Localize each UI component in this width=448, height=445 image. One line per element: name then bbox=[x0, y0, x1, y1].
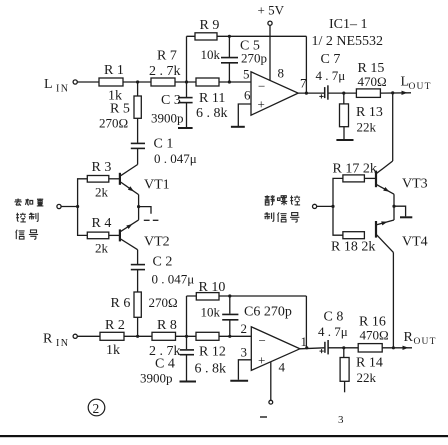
label R17 bbox=[333, 162, 377, 177]
svg-text:R: R bbox=[404, 330, 414, 345]
node J4 (R2/R8/R6) bbox=[136, 335, 139, 338]
node feedback2/C6 top bbox=[228, 294, 231, 297]
wire terminal to rail bbox=[61, 206, 78, 208]
wire R14 top bbox=[343, 348, 345, 358]
svg-text:R 8: R 8 bbox=[157, 318, 177, 333]
label R11 bbox=[196, 91, 228, 121]
ground (C4) bbox=[180, 381, 197, 383]
label C1 bbox=[154, 137, 197, 167]
wire R1 to R7 bbox=[123, 81, 151, 83]
label R18 bbox=[331, 240, 375, 255]
svg-text:VT4: VT4 bbox=[402, 235, 428, 250]
label circled 2 bbox=[88, 399, 105, 416]
label R4 bbox=[92, 216, 112, 256]
wire C7 to R15 bbox=[328, 92, 357, 94]
resistor R9 bbox=[195, 33, 217, 40]
svg-text:270p: 270p bbox=[241, 51, 267, 66]
svg-text:C 2: C 2 bbox=[153, 255, 173, 270]
node U2 output/feedback bbox=[305, 346, 308, 349]
svg-text:2k: 2k bbox=[95, 185, 109, 200]
svg-text:0 . 047μ: 0 . 047μ bbox=[154, 151, 197, 166]
svg-text:6 . 8k: 6 . 8k bbox=[196, 106, 228, 121]
label L_IN bbox=[44, 77, 69, 95]
svg-text:8: 8 bbox=[278, 66, 285, 81]
svg-text:OUT: OUT bbox=[414, 337, 437, 347]
wire C2 to R6 bbox=[137, 270, 139, 292]
wire control rail to R3 bbox=[78, 179, 88, 236]
svg-text:270Ω: 270Ω bbox=[149, 295, 178, 310]
svg-text:5: 5 bbox=[243, 67, 250, 82]
node J5 (R8/R12/C4/R10) bbox=[185, 335, 188, 338]
svg-text:R 12: R 12 bbox=[199, 345, 226, 360]
node C8/R14 bbox=[342, 346, 345, 349]
svg-text:+: + bbox=[258, 353, 265, 368]
bottom border line bbox=[0, 435, 448, 437]
wire C3 to ground bbox=[186, 103, 188, 128]
label 静噪控制信号 bbox=[264, 195, 300, 222]
wire VT2 emitter up to junction bbox=[138, 207, 140, 220]
wire +5V to op-amp pin 8 bbox=[269, 25, 271, 80]
resistor R17 bbox=[343, 175, 365, 182]
svg-text:2k: 2k bbox=[95, 241, 109, 256]
wire J2 up to feedback rail bbox=[186, 36, 188, 82]
capacitor C4 bbox=[180, 350, 194, 355]
node U1 output/feedback bbox=[305, 92, 308, 95]
wire R5 to C1 bbox=[137, 118, 139, 143]
svg-text:270Ω: 270Ω bbox=[99, 116, 128, 131]
wire VT4 emitter up to junction bbox=[393, 206, 395, 220]
svg-text:2 . 7k: 2 . 7k bbox=[149, 64, 181, 79]
wire R6 to bottom rail bbox=[137, 317, 139, 336]
wire R11 to op-amp inverting input bbox=[219, 81, 251, 83]
wire U2 output bbox=[300, 348, 324, 349]
wire VT3 collector from L_OUT node bbox=[392, 93, 394, 161]
svg-text:C 7: C 7 bbox=[321, 52, 341, 67]
resistor R16 bbox=[358, 344, 382, 352]
svg-text:C 4: C 4 bbox=[155, 357, 175, 372]
svg-text:R 13: R 13 bbox=[356, 105, 383, 120]
capacitor C7 (electrolytic) bbox=[319, 85, 328, 99]
terminal negative supply bbox=[269, 400, 273, 404]
resistor R10 bbox=[196, 293, 219, 300]
svg-text:470Ω: 470Ω bbox=[360, 328, 389, 343]
node R15/VT3 collector bbox=[391, 91, 394, 94]
wire R17 to VT3 base bbox=[364, 177, 375, 179]
resistor R14 bbox=[340, 358, 349, 382]
wire feedback rail top bbox=[187, 35, 307, 37]
node mute rail junction bbox=[331, 205, 334, 208]
svg-text:2: 2 bbox=[93, 401, 100, 416]
node C7/R13 bbox=[342, 92, 345, 95]
label R2 bbox=[105, 318, 125, 358]
ground (R13) bbox=[336, 139, 353, 141]
label R5 bbox=[99, 102, 130, 131]
terminal R_IN bbox=[73, 334, 77, 338]
svg-text:R 17 2k: R 17 2k bbox=[333, 162, 377, 177]
label VT2 bbox=[144, 235, 170, 250]
svg-text:L: L bbox=[44, 77, 53, 92]
svg-text:+: + bbox=[258, 97, 265, 112]
svg-text:R 11: R 11 bbox=[199, 91, 225, 106]
wire R13 to ground bbox=[343, 127, 345, 139]
svg-text:OUT: OUT bbox=[409, 82, 432, 92]
label R_IN bbox=[43, 332, 69, 350]
wire feedback rail down to output bbox=[305, 36, 307, 93]
node VT3/VT4 emitter junction bbox=[392, 205, 395, 208]
wire C1 to VT1 collector bbox=[137, 148, 139, 164]
label R6 bbox=[111, 295, 178, 311]
label L_OUT bbox=[401, 75, 432, 93]
wire R7 to R11 bbox=[175, 81, 196, 83]
svg-text:22k: 22k bbox=[357, 120, 377, 135]
wire J1 down to R5 bbox=[137, 82, 139, 96]
resistor R1 bbox=[99, 78, 123, 86]
op-amp U1 (1/2 NE5532) bbox=[251, 72, 298, 115]
node J2 (R7/R11/C3/R9) bbox=[185, 80, 188, 83]
resistor R15 bbox=[356, 89, 380, 98]
svg-text:IC1– 1: IC1– 1 bbox=[329, 17, 368, 32]
terminal mute control bbox=[313, 204, 317, 208]
label R3 bbox=[92, 160, 112, 200]
label R10 bbox=[199, 280, 226, 320]
svg-text:3: 3 bbox=[241, 345, 248, 360]
svg-text:4 . 7μ: 4 . 7μ bbox=[316, 68, 346, 83]
label VT4 bbox=[402, 235, 428, 250]
capacitor C8 (electrolytic) bbox=[320, 340, 329, 354]
svg-text:R 5: R 5 bbox=[110, 102, 130, 117]
capacitor C6 bbox=[222, 296, 238, 336]
label R7 bbox=[149, 49, 181, 80]
label U2 pins and signs bbox=[241, 321, 308, 375]
resistor R3 bbox=[87, 176, 109, 183]
wire R16 to R_OUT bbox=[382, 347, 412, 349]
wire VT4 collector down to R_OUT node bbox=[392, 252, 394, 347]
wire R4 to VT2 base bbox=[109, 234, 119, 236]
resistor R12 bbox=[196, 332, 219, 340]
ground (U1 plus input) bbox=[231, 126, 245, 128]
transistor VT4 bbox=[376, 220, 394, 252]
label R8 bbox=[149, 318, 181, 359]
wire C4 to ground bbox=[186, 355, 188, 381]
node R16/VT4 collector bbox=[392, 346, 395, 349]
label R9 bbox=[200, 18, 221, 62]
node control rail junction bbox=[76, 205, 79, 208]
wire R3 to VT1 base bbox=[109, 178, 119, 180]
resistor R2 bbox=[100, 332, 124, 340]
svg-text:7: 7 bbox=[300, 76, 307, 91]
node VT1/VT2 emitter junction bbox=[137, 205, 140, 208]
label C5 bbox=[240, 39, 267, 66]
wire J5 down to C4 bbox=[186, 336, 188, 349]
label minus supply bbox=[260, 416, 267, 418]
node J1 (R1/R7/R5) bbox=[136, 80, 139, 83]
wire feedback rail 2 down to output bbox=[305, 296, 307, 348]
wire mute rail to R17/R18 bbox=[333, 178, 343, 235]
wire dashed continuation bbox=[144, 219, 159, 221]
svg-text:3900p: 3900p bbox=[151, 111, 184, 126]
arrow R_OUT bbox=[403, 346, 409, 350]
arrow L_OUT bbox=[402, 91, 408, 95]
wire feedback rail 2 bbox=[187, 295, 307, 297]
label R_OUT bbox=[404, 330, 437, 347]
node feedback/C5 top bbox=[228, 35, 231, 38]
svg-text:VT2: VT2 bbox=[144, 235, 170, 250]
resistor R5 bbox=[134, 96, 141, 118]
svg-text:6: 6 bbox=[244, 88, 251, 103]
wire emitter junction stub bbox=[139, 207, 151, 214]
svg-text:1k: 1k bbox=[106, 343, 120, 358]
svg-text:R 6: R 6 bbox=[111, 296, 131, 311]
resistor R7 bbox=[151, 78, 175, 86]
svg-text:R 10: R 10 bbox=[199, 280, 226, 295]
svg-text:R 2: R 2 bbox=[105, 318, 125, 333]
wire R15 to L_OUT bbox=[380, 92, 411, 94]
svg-text:R 7: R 7 bbox=[157, 49, 177, 64]
capacitor C5 bbox=[221, 36, 238, 82]
svg-text:470Ω: 470Ω bbox=[358, 74, 387, 89]
svg-text:R 3: R 3 bbox=[92, 160, 112, 175]
label C6 bbox=[244, 305, 292, 320]
svg-text:VT1: VT1 bbox=[144, 178, 170, 193]
capacitor C3 bbox=[178, 98, 193, 103]
transistor VT3 bbox=[376, 161, 394, 206]
label C4 bbox=[140, 357, 175, 386]
wire R_IN to R2 bbox=[77, 335, 100, 337]
svg-text:IN: IN bbox=[56, 338, 69, 349]
svg-text:22k: 22k bbox=[357, 370, 377, 385]
wire R12 to op-amp 2 inverting input bbox=[219, 335, 251, 337]
wire R2 to R8 bbox=[124, 335, 152, 337]
wire emitter junction to ground bbox=[394, 206, 406, 216]
label C8 bbox=[318, 310, 348, 340]
wire J2 down to C3 bbox=[186, 82, 188, 97]
label C3 bbox=[151, 93, 184, 126]
capacitor C1 bbox=[131, 143, 145, 148]
wire J5 up to feedback rail 2 bbox=[186, 296, 188, 336]
label VT3 bbox=[402, 177, 428, 192]
ground (U2 plus input) bbox=[230, 380, 248, 382]
node J6 (C6 bottom on minus line) bbox=[228, 335, 231, 338]
resistor R18 bbox=[343, 232, 365, 239]
svg-text:C 3: C 3 bbox=[161, 93, 181, 108]
label 去加重控制信号 bbox=[14, 198, 43, 239]
svg-text:R 9: R 9 bbox=[200, 18, 220, 33]
transistor VT2 bbox=[120, 220, 139, 264]
svg-text:C6 270p: C6 270p bbox=[244, 305, 292, 320]
label page mark 3 bbox=[338, 414, 344, 426]
svg-text:R 1: R 1 bbox=[104, 63, 124, 78]
wire R13 top bbox=[343, 93, 345, 104]
svg-text:−: − bbox=[259, 333, 266, 348]
svg-text:6 . 8k: 6 . 8k bbox=[195, 362, 227, 377]
resistor R13 bbox=[340, 104, 349, 127]
svg-text:−: − bbox=[258, 79, 265, 94]
wire U2 pin 4 to negative supply bbox=[270, 362, 272, 401]
resistor R8 bbox=[152, 332, 176, 340]
svg-text:4: 4 bbox=[279, 360, 286, 375]
resistor R6 bbox=[134, 292, 141, 317]
transistor VT1 bbox=[120, 165, 139, 207]
svg-text:0 . 047μ: 0 . 047μ bbox=[152, 272, 195, 287]
svg-text:4 . 7μ: 4 . 7μ bbox=[318, 324, 348, 339]
svg-text:1/ 2 NE5532: 1/ 2 NE5532 bbox=[312, 34, 384, 49]
label R1 bbox=[104, 63, 124, 104]
wire R8 to R12 bbox=[176, 335, 197, 337]
resistor R11 bbox=[196, 78, 219, 86]
svg-text:VT3: VT3 bbox=[402, 177, 428, 192]
terminal de-emphasis control bbox=[57, 204, 61, 208]
svg-text:10k: 10k bbox=[201, 305, 221, 320]
resistor R4 bbox=[87, 232, 109, 239]
ground (C3) bbox=[178, 127, 193, 129]
wire L_IN to R1 bbox=[77, 81, 99, 83]
wire C8 to R16 bbox=[328, 347, 358, 349]
svg-text:+ 5V: + 5V bbox=[258, 3, 285, 18]
label R16 bbox=[359, 315, 389, 343]
wire U1 output bbox=[298, 92, 324, 94]
capacitor C2 bbox=[131, 265, 145, 270]
svg-text:3900p: 3900p bbox=[140, 371, 173, 386]
node J3 (C5 bottom on minus line) bbox=[228, 80, 231, 83]
label R12 bbox=[195, 345, 227, 377]
terminal +5V bbox=[268, 21, 272, 25]
svg-text:3: 3 bbox=[338, 414, 344, 426]
svg-text:R: R bbox=[43, 332, 53, 347]
wire terminal to rail bbox=[317, 205, 333, 207]
svg-text:IN: IN bbox=[56, 84, 69, 95]
op-amp U2 (1/2 NE5532) bbox=[251, 327, 300, 371]
label +5V bbox=[258, 3, 285, 18]
svg-text:2: 2 bbox=[241, 321, 248, 336]
label R13 bbox=[356, 105, 383, 135]
label C2 bbox=[152, 255, 195, 287]
svg-text:R 18 2k: R 18 2k bbox=[331, 240, 375, 255]
label R15 bbox=[358, 61, 387, 89]
label IC1-1 1/2 NE5532 bbox=[312, 17, 384, 49]
label C7 bbox=[316, 52, 346, 83]
svg-text:R 14: R 14 bbox=[356, 356, 383, 371]
svg-text:C 1: C 1 bbox=[154, 137, 174, 152]
wire U2 plus input to ground bbox=[238, 360, 251, 380]
wire U1 plus input to ground bbox=[238, 104, 251, 126]
svg-text:R 4: R 4 bbox=[92, 216, 112, 231]
terminal L_IN bbox=[73, 80, 77, 84]
label VT1 bbox=[144, 178, 170, 193]
svg-text:C 8: C 8 bbox=[324, 310, 344, 325]
wire R14 bottom stub bbox=[344, 381, 346, 392]
ground (VT3/VT4 emitters) bbox=[400, 216, 412, 218]
label U1 pins and signs bbox=[243, 66, 307, 112]
svg-text:10k: 10k bbox=[201, 47, 221, 62]
label R14 bbox=[356, 356, 383, 386]
